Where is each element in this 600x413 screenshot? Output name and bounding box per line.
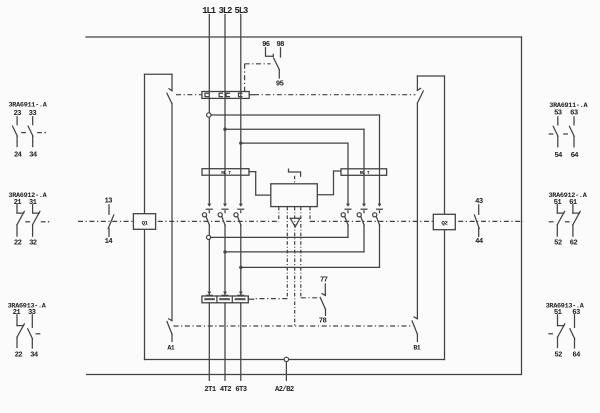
wire Q2 pole2 to T2 (225, 251, 364, 253)
wire T1 column (208, 225, 210, 296)
enclosure bottom edge (87, 374, 522, 376)
svg-text:64: 64 (572, 351, 581, 359)
housing left edge (144, 74, 146, 359)
linkage tick (564, 133, 568, 135)
switch linkage right segment (254, 94, 416, 96)
contact 96 seat tick (272, 54, 274, 56)
main linkage line right (310, 220, 523, 222)
contactor Q1 main contact pole 2 (224, 211, 226, 213)
wire 43 (478, 205, 480, 215)
svg-text:13: 13 (104, 197, 112, 205)
svg-text:Q2: Q2 (441, 220, 448, 227)
svg-text:34: 34 (30, 351, 39, 359)
wire A2/B2 drop (285, 362, 287, 381)
wire 44 (478, 228, 480, 236)
switch contact A1 (169, 319, 172, 321)
linkage dot (48, 221, 50, 223)
switch bar contact clip (226, 93, 229, 96)
plug connector mark output pole 2 (223, 292, 227, 295)
plug connector mark left pole 3 (239, 204, 243, 207)
wire 3L2 drop (224, 15, 226, 204)
linkage stub into module right (309, 207, 311, 222)
linkage vertical to contact 77 (300, 207, 302, 298)
wire module to right block (317, 171, 340, 195)
wire left coil branch (171, 104, 173, 321)
svg-text:RL T: RL T (360, 170, 370, 176)
svg-text:78: 78 (319, 317, 327, 325)
switch contact right coil feed (417, 88, 420, 90)
wire 78 (325, 309, 327, 315)
svg-text:31: 31 (29, 199, 38, 207)
housing bottom edge (145, 359, 445, 361)
switch bar contact clip (205, 93, 208, 96)
bar divider 2 (231, 296, 233, 303)
svg-text:24: 24 (14, 152, 23, 160)
wire coil feed left (171, 74, 173, 91)
plug connector mark right pole 3 (378, 204, 382, 207)
linkage dot (44, 132, 46, 134)
contactor Q1 main contact pole 1 (208, 211, 210, 213)
node T1 join (207, 235, 211, 239)
svg-text:Q1: Q1 (142, 219, 149, 226)
wire Q2 pole3 to T3 (241, 266, 380, 268)
switch contact B1 (414, 317, 417, 319)
wire Q2 pole1 to T1 (211, 236, 348, 238)
svg-text:B1: B1 (413, 344, 420, 351)
wire drop right pole 2 (363, 129, 365, 203)
svg-text:A1: A1 (167, 344, 174, 351)
wire 2T1 drop (208, 303, 210, 381)
wire coil feed right (416, 76, 418, 90)
wire A1 stub (171, 334, 173, 341)
svg-text:61: 61 (569, 199, 578, 207)
svg-text:54: 54 (554, 152, 563, 160)
wire into module left (256, 172, 271, 195)
aux contact 63/64 wobble (574, 315, 576, 328)
main switch bar (202, 92, 249, 99)
rotary actuator symbol (289, 169, 301, 176)
switch contact left coil feed (169, 89, 172, 91)
plug connector mark right pole 1 (346, 204, 350, 207)
linkage horizontal to contact 77 (301, 297, 320, 299)
svg-text:32: 32 (29, 239, 37, 247)
switch linkage left segment (176, 94, 202, 96)
contactor coil Q1 (133, 214, 155, 230)
aux contact 23/24 (16, 117, 18, 125)
svg-text:RL T: RL T (221, 170, 231, 176)
aux contact 61/62 (572, 205, 574, 214)
wire T3 column (240, 225, 242, 296)
wire 77 (324, 284, 326, 295)
aux contact 21/22 wobble (16, 315, 18, 326)
svg-text:2T1: 2T1 (204, 386, 216, 394)
svg-text:77: 77 (320, 276, 328, 284)
contact 43/44 blade (474, 215, 479, 229)
wire 1L1 drop (208, 15, 210, 204)
wire drop right pole 1 (347, 143, 349, 203)
switch bar right stub (249, 94, 254, 96)
plug connector mark output pole 3 (239, 292, 243, 295)
linkage tick (41, 221, 45, 223)
svg-text:62: 62 (570, 239, 578, 247)
main linkage line left (78, 220, 279, 222)
wire 13 (108, 205, 110, 215)
coil linkage line (174, 325, 411, 327)
plug connector mark left pole 2 (223, 204, 227, 207)
wire 5L3 drop (240, 15, 242, 204)
wire B1 stub (416, 334, 418, 341)
svg-text:63: 63 (572, 309, 580, 317)
aux contact 51/52 wobble (557, 315, 559, 326)
svg-text:34: 34 (29, 152, 38, 160)
aux contact 33/34 (32, 117, 34, 125)
contactor coil Q2 (433, 214, 455, 229)
contact 77/78 blade (322, 294, 325, 296)
svg-text:95: 95 (276, 81, 284, 89)
linkage tick (566, 221, 570, 223)
housing top-left edge (145, 73, 173, 75)
linkage tick (38, 132, 42, 134)
svg-text:52: 52 (554, 239, 562, 247)
aux contact 31/32 (32, 205, 34, 214)
bar right stub (248, 298, 253, 300)
wire L1 to right pole 3 (211, 114, 380, 116)
electronics module U1 (271, 184, 318, 207)
linkage tick (26, 221, 30, 223)
aux contact 21/22 (16, 205, 18, 214)
linkage vertical to coil line (294, 207, 296, 326)
aux contact 51/52 (556, 205, 558, 214)
linkage tick (22, 132, 26, 134)
contactor Q2 main contact pole 3 (379, 211, 381, 213)
aux contact 33/34 wobble (31, 315, 33, 328)
wire Q2 pole1 drop (347, 225, 349, 237)
node T2 join (223, 250, 226, 253)
plug connector mark left pole 1 (207, 204, 211, 207)
svg-text:4T2: 4T2 (220, 386, 231, 394)
housing right edge (444, 76, 446, 360)
bar divider 1 (216, 296, 218, 303)
contact 95 blade (274, 58, 280, 70)
linkage tick (36, 333, 40, 335)
svg-text:44: 44 (475, 238, 484, 246)
current transformer block right (341, 169, 387, 176)
plug connector mark output pole 1 (207, 292, 211, 295)
aux contact 53/54 (557, 117, 559, 125)
node L1 tap (207, 113, 211, 117)
contactor Q2 main contact pole 1 (347, 211, 349, 213)
contact 98 fixed terminal (280, 48, 282, 57)
svg-text:51: 51 (554, 199, 563, 207)
svg-text:52: 52 (554, 351, 562, 359)
contact 96 fixed terminal (266, 48, 274, 57)
wire L3 to right pole 1 (241, 142, 348, 144)
actuator link to module (294, 176, 296, 184)
aux contact 63/64 (573, 117, 575, 125)
switch bar contact clip (219, 93, 222, 96)
wire Q2 pole2 drop (363, 225, 365, 252)
wire 4T2 drop (224, 303, 226, 381)
svg-text:A2/B2: A2/B2 (275, 386, 294, 394)
linkage to 95 contact (245, 63, 271, 65)
node L3 tap (239, 141, 242, 144)
wire 14 (108, 228, 110, 236)
svg-text:51: 51 (554, 309, 563, 317)
linkage tick (549, 133, 553, 135)
svg-text:22: 22 (14, 239, 22, 247)
contactor Q2 main contact pole 2 (363, 211, 365, 213)
svg-text:3RA6911-.A: 3RA6911-.A (9, 102, 48, 110)
housing top-right edge (417, 75, 444, 77)
output plug-in bar (202, 296, 248, 303)
enclosure right edge (521, 37, 523, 375)
wire T2 column (224, 225, 226, 296)
linkage horizontal to output bar (254, 298, 287, 300)
wire L2 to right pole 2 (225, 128, 364, 130)
current transformer block left (202, 169, 249, 176)
mechanical latch triangle (290, 218, 300, 227)
enclosure top edge (86, 36, 522, 38)
plug connector mark right pole 2 (362, 204, 366, 207)
switch bar contact clip (239, 93, 242, 96)
svg-text:21: 21 (14, 199, 23, 207)
linkage tick (549, 333, 553, 335)
node L2 tap (223, 128, 226, 131)
linkage tick (549, 221, 553, 223)
wire Q2 pole3 drop (379, 225, 381, 267)
wire left block to module (249, 171, 256, 173)
wire drop right pole 3 (379, 115, 381, 203)
linkage stub into module left (278, 207, 280, 222)
linkage vertical to output bar (286, 207, 288, 299)
contactor Q1 main contact pole 3 (240, 211, 242, 213)
wire 6T3 drop (240, 303, 242, 381)
wire 95 common (278, 70, 280, 78)
svg-text:6T3: 6T3 (235, 386, 246, 394)
svg-text:14: 14 (105, 238, 114, 246)
contact 13/14 blade (108, 215, 114, 229)
wire right coil branch (416, 103, 418, 319)
linkage drop to switch bar (244, 64, 246, 92)
node T3 join (239, 266, 242, 269)
bar contact bridges (204, 298, 215, 300)
svg-text:64: 64 (571, 152, 580, 160)
svg-text:22: 22 (15, 351, 23, 359)
terminal A2/B2 node (284, 357, 288, 361)
